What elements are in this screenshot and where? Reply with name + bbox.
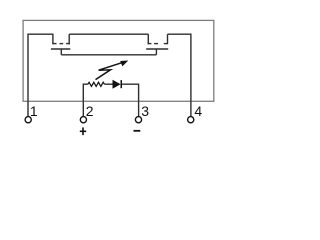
transistor Q1 channel dash 1 <box>52 43 56 45</box>
polarity - sign (pin 3) <box>134 130 141 132</box>
wire: LED loop left vertical (pin 2 riser) <box>83 84 88 101</box>
wire: gate interconnect line <box>61 54 156 56</box>
transistor Q2 (right photoMOS FET) left stub <box>147 34 149 44</box>
transistor Q1 gate lead <box>60 49 62 55</box>
transistor Q1 channel dash 3 <box>66 43 70 45</box>
transistor Q1 (left photoMOS FET) drain stub <box>52 34 54 44</box>
transistor Q2 gate bar <box>146 48 168 50</box>
polarity + sign (pin 2) <box>80 127 86 135</box>
pin 4 lead wire <box>190 101 192 116</box>
transistor Q2 gate lead <box>155 49 157 55</box>
pin number 1 <box>30 104 38 118</box>
pin 3 lead wire <box>138 101 140 116</box>
wire: top rail right segment (Q2 to pin4) <box>168 34 191 101</box>
wire: top rail middle segment (Q1 to Q2) <box>69 33 148 35</box>
transistor Q2 channel dash 1 <box>148 43 152 45</box>
wire: resistor to diode <box>105 83 113 85</box>
transistor Q1 channel dash 2 <box>60 43 64 45</box>
pin number 3 <box>141 104 149 118</box>
transistor Q2 channel dash 2 <box>154 43 158 45</box>
pin 1 terminal circle <box>25 117 31 123</box>
transistor Q1 gate bar <box>51 48 70 50</box>
pin 1 lead wire <box>27 101 29 116</box>
transistor Q2 right stub <box>167 34 169 44</box>
wire: top rail left segment (pin1 to Q1 drain) <box>28 34 54 101</box>
pin 3 terminal circle <box>135 117 141 123</box>
package outline box <box>23 20 214 101</box>
resistor R1 (LED series resistor) <box>88 82 105 86</box>
transistor Q1 source stub <box>68 34 70 44</box>
LED D1 cathode bar <box>121 80 123 88</box>
pin number 4 <box>194 104 202 118</box>
pin 2 terminal circle <box>80 117 86 123</box>
LED D1 triangle (anode) <box>113 80 121 89</box>
light coupling arrowhead <box>120 61 128 67</box>
transistor Q2 channel dash 3 <box>164 43 168 45</box>
pin 2 lead wire <box>82 101 84 116</box>
pin 4 terminal circle <box>188 117 194 123</box>
wire: diode to LED loop right vertical (pin 3 riser) <box>122 84 139 101</box>
pin number 2 <box>86 104 94 118</box>
light coupling arrow (LED light to FET gates) <box>96 63 122 80</box>
